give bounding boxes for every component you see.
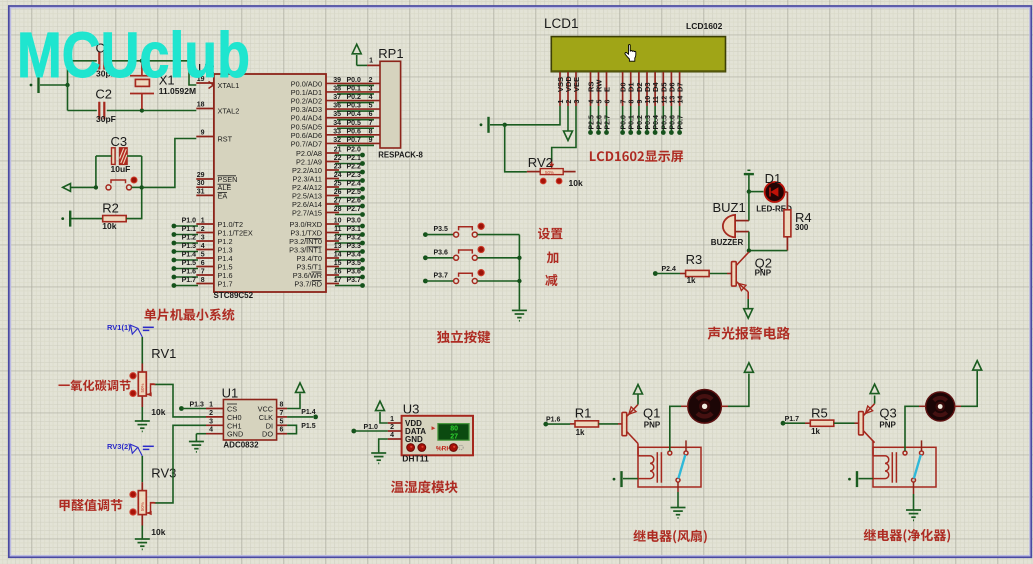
svg-text:15: 15 [334, 260, 342, 267]
ground bar terminal (RL2 coil) [848, 471, 857, 487]
R1 left lead [570, 423, 575, 425]
U3 pin 2 DATA stub [388, 430, 402, 432]
DHT11 indicator LEDs [407, 444, 415, 452]
svg-text:1: 1 [201, 218, 205, 225]
relay RL2 switch (cyan) [914, 455, 921, 479]
svg-text:3: 3 [369, 85, 373, 92]
wire P3.1 [335, 234, 363, 236]
svg-text:1k: 1k [687, 276, 696, 285]
capacitor C2 plates [99, 102, 104, 120]
svg-text:9: 9 [201, 130, 205, 137]
LCD1602 screen [551, 37, 725, 72]
wire VEE to RV2 wiper [552, 106, 576, 162]
wire P0.2 [337, 102, 374, 104]
wire LCD D5 [662, 106, 664, 131]
terminal P3.6 [360, 275, 365, 280]
red text 一氧化碳调节 [58, 380, 130, 392]
wire P2.4 [335, 188, 363, 190]
LCD pin 11 D4 [654, 72, 656, 106]
svg-text:RST: RST [218, 135, 233, 144]
svg-text:300: 300 [795, 223, 809, 232]
svg-text:P2.1: P2.1 [347, 155, 362, 162]
resistor R4 body [784, 210, 791, 237]
wire D1 to R4 [785, 191, 788, 193]
resistor R3 body [686, 270, 710, 276]
terminal P1.5 [172, 266, 177, 271]
svg-text:4: 4 [369, 94, 373, 101]
svg-text:STC89C52: STC89C52 [214, 291, 254, 300]
terminal P1.0 [172, 224, 177, 229]
ground (RL1) [671, 508, 686, 518]
WR overline [312, 271, 322, 273]
svg-text:GND: GND [227, 430, 243, 439]
pin 29 stub [196, 178, 214, 180]
svg-text:11: 11 [653, 96, 660, 104]
wire P2.4 to R3 [655, 273, 680, 275]
motor M2 (purifier) [926, 392, 955, 421]
pin 17 stub [326, 283, 339, 285]
junction osc left [65, 83, 69, 87]
svg-text:P1.7: P1.7 [785, 416, 800, 423]
svg-text:8: 8 [629, 100, 636, 104]
svg-text:%RH: %RH [436, 446, 451, 453]
pin 2 stub P1.1 [196, 232, 214, 234]
power +5V arrow (U1) [296, 383, 305, 393]
terminal P1.3 [172, 249, 177, 254]
svg-text:10: 10 [334, 218, 342, 225]
junction XTAL2 node [140, 108, 144, 112]
power +5V arrow (Q1) [634, 385, 643, 395]
terminal P1.0 [351, 429, 356, 434]
wire P3.0 [335, 225, 363, 227]
wire RP1 pin1 [357, 64, 367, 66]
red text 甲醛值调节 [59, 499, 122, 511]
svg-text:29: 29 [197, 172, 205, 179]
svg-text:P0.5: P0.5 [347, 120, 362, 127]
svg-text:U1: U1 [222, 386, 239, 401]
svg-text:7: 7 [621, 100, 628, 104]
wire GND down [379, 439, 388, 453]
terminal P3.4 [360, 258, 365, 263]
svg-text:18: 18 [197, 102, 205, 109]
svg-text:6: 6 [280, 427, 284, 434]
svg-text:30: 30 [197, 180, 205, 187]
wire button P3.7 to common [477, 280, 519, 282]
svg-text:50%: 50% [545, 170, 554, 175]
pin 38 P0.1 bus red [326, 91, 380, 93]
wire RV1 wiper to CH0 [155, 384, 207, 417]
svg-text:Q1: Q1 [643, 406, 660, 421]
INT1 overline [307, 246, 322, 248]
svg-text:8: 8 [201, 277, 205, 284]
wire buttons common vertical [518, 235, 520, 310]
terminal P1.6 [543, 422, 548, 427]
svg-text:DHT11: DHT11 [402, 454, 429, 464]
LCD pin 12 D5 [662, 72, 664, 106]
terminal P3.3 [360, 249, 365, 254]
svg-text:GND: GND [405, 435, 423, 444]
junction common P3.6 [517, 256, 521, 260]
wire C2 to XTAL2 node [107, 110, 142, 112]
potentiometer RV2 [527, 162, 576, 176]
power +5V arrow (RP1) [352, 44, 361, 54]
motor M1 right lead [721, 405, 728, 407]
pin 18 stub [196, 108, 214, 110]
wire node to D1 [749, 191, 764, 193]
svg-text:P0.7: P0.7 [678, 115, 685, 130]
junction reset right [140, 185, 144, 189]
svg-text:BUZZER: BUZZER [711, 238, 744, 247]
LCD pin 1 VSS [559, 72, 561, 106]
svg-text:P2.7/A15: P2.7/A15 [292, 209, 322, 218]
resistor pack RP1 body [380, 61, 401, 148]
svg-text:P1.6: P1.6 [182, 269, 197, 276]
wire probe to RV3 [141, 456, 143, 482]
terminal P2.7 [360, 212, 365, 217]
svg-text:P3.3: P3.3 [347, 243, 362, 250]
wire C3 right vertical [141, 156, 143, 187]
ground bar terminal (RL1 coil) [613, 471, 622, 487]
wire P0.1 [337, 93, 374, 95]
svg-text:7: 7 [201, 269, 205, 276]
terminal P0.1 [628, 130, 633, 135]
pin 10 stub [326, 223, 339, 225]
terminal P2.4 [360, 187, 365, 192]
svg-text:P2.6: P2.6 [597, 115, 604, 130]
terminal P2.4 [653, 271, 658, 276]
pin 14 stub [326, 257, 339, 259]
svg-text:14: 14 [334, 252, 342, 259]
svg-text:VEE: VEE [572, 77, 581, 92]
svg-text:LCD1: LCD1 [544, 16, 579, 31]
voltage probe RV1(1) [131, 325, 154, 337]
wire P2.1 [335, 163, 363, 165]
svg-text:21: 21 [334, 147, 342, 154]
terminal P2.5 [588, 130, 593, 135]
svg-text:ADC0832: ADC0832 [223, 441, 259, 450]
pin 28 stub [326, 212, 339, 214]
wire C1 to crystal node [107, 60, 142, 62]
wire probe to RV1 [141, 337, 143, 364]
svg-text:1k: 1k [811, 427, 820, 436]
svg-text:P3.1: P3.1 [347, 226, 362, 233]
wire VSS to ground node [505, 106, 560, 125]
junction LED node [747, 189, 751, 193]
wire node to XTAL1 pin [142, 61, 196, 85]
power +5V arrow (U3) [376, 401, 385, 411]
wire P2.6 [335, 205, 363, 207]
svg-text:3: 3 [209, 418, 213, 425]
wire C3 left [96, 155, 112, 157]
wire node to RV2 left [505, 125, 527, 172]
ground bar terminal (osc) [30, 77, 39, 93]
svg-text:2: 2 [201, 226, 205, 233]
pin 4 stub P1.3 [196, 249, 214, 251]
svg-text:2: 2 [369, 77, 373, 84]
svg-text:U3: U3 [403, 402, 420, 417]
wire P2.2 [335, 171, 363, 173]
U1 pin 4 GND stub [206, 433, 223, 435]
wire VCC to power [287, 394, 300, 409]
svg-text:6: 6 [369, 111, 373, 118]
resistor R1 body [575, 421, 599, 427]
svg-text:3: 3 [574, 100, 581, 104]
wire LCD D1 [630, 106, 632, 131]
red text 设置 [538, 228, 563, 240]
LCD pin 6 E [606, 72, 608, 106]
svg-text:26: 26 [334, 189, 342, 196]
terminal P0.5 [661, 130, 666, 135]
crystal X1 [130, 62, 154, 109]
wire R1 to Q1 base [599, 423, 619, 425]
wire P1.7 to R5 [783, 422, 805, 424]
terminal P2.0 [360, 153, 365, 158]
pin 34 P0.5 bus red [326, 125, 380, 127]
wire node to RST pin [142, 139, 197, 188]
svg-text:5: 5 [369, 103, 373, 110]
svg-text:12: 12 [661, 96, 668, 104]
wire RV3 to ground [141, 526, 143, 539]
terminal P2.2 [360, 170, 365, 175]
wire GND down [195, 434, 197, 441]
motor M1 (fan) [688, 390, 722, 424]
DHT11 gray marker [459, 445, 463, 449]
INT0 overline [305, 237, 322, 239]
svg-text:P2.4: P2.4 [662, 266, 677, 273]
button key3 marker dot [478, 270, 484, 276]
svg-text:2: 2 [209, 410, 213, 417]
svg-text:D1: D1 [765, 171, 782, 186]
terminal P3.6 [423, 255, 428, 260]
svg-text:P3.7: P3.7 [434, 273, 449, 280]
RV1 terminal marker dots [130, 373, 136, 379]
LCD pin 7 D0 [622, 72, 624, 106]
svg-text:RV1: RV1 [151, 346, 176, 361]
svg-text:MCUclub: MCUclub [17, 19, 250, 91]
pin 39 P0.0 bus red [326, 82, 380, 84]
terminal P3.0 [360, 224, 365, 229]
transistor Q1 (PNP) [622, 405, 638, 456]
svg-text:DO: DO [262, 430, 273, 439]
pin 5 stub P1.4 [196, 257, 214, 259]
svg-text:P1.3: P1.3 [182, 243, 197, 250]
svg-text:LCD1602: LCD1602 [686, 21, 723, 31]
U3 pin 4 GND stub [388, 438, 402, 440]
svg-text:33: 33 [333, 128, 341, 135]
RV3 terminal marker dots [130, 491, 136, 497]
wire button to node [132, 186, 142, 188]
svg-text:P2.4: P2.4 [347, 181, 362, 188]
LCD pin 8 D1 [630, 72, 632, 106]
wire gnd to R2 [71, 218, 103, 220]
wire P3.6 to button [425, 257, 453, 259]
svg-text:12: 12 [334, 235, 342, 242]
svg-text:9: 9 [637, 100, 644, 104]
svg-text:C3: C3 [111, 134, 128, 149]
svg-text:PNP: PNP [644, 421, 661, 430]
svg-text:80: 80 [450, 425, 458, 432]
svg-text:P3.7/RD: P3.7/RD [294, 280, 322, 289]
terminal P2.5 [360, 195, 365, 200]
svg-text:BUZ1: BUZ1 [713, 200, 746, 215]
wire to C2 left [68, 110, 97, 112]
svg-text:22: 22 [334, 155, 342, 162]
svg-text:P1.7: P1.7 [218, 280, 233, 289]
svg-text:P1.0: P1.0 [182, 218, 197, 225]
svg-text:P1.6: P1.6 [546, 417, 561, 424]
wire C3 right [127, 155, 142, 157]
svg-text:P0.3: P0.3 [347, 103, 362, 110]
svg-text:4: 4 [390, 432, 394, 439]
wire button P3.5 to common [477, 234, 519, 236]
wire CLK to P1.4 [287, 416, 313, 418]
svg-text:31: 31 [197, 188, 205, 195]
svg-text:P2.7: P2.7 [605, 115, 612, 130]
svg-text:10k: 10k [151, 527, 165, 537]
wire DI-DO tie P1.5 [287, 425, 296, 433]
svg-text:9: 9 [369, 137, 373, 144]
push button key1 [454, 227, 478, 237]
wire P1.1 [174, 234, 198, 236]
pin 7 stub P1.6 [196, 274, 214, 276]
terminal P0.2 [637, 130, 642, 135]
svg-text:P0.6: P0.6 [669, 115, 676, 130]
svg-text:RP1: RP1 [378, 46, 403, 61]
terminal P1.4 [313, 415, 318, 420]
wire P0.3 [337, 110, 374, 112]
wire relay common down [677, 492, 679, 507]
pin 11 stub [326, 232, 339, 234]
motor M1 left lead [681, 405, 688, 407]
U1 pin 6 DO stub [277, 433, 288, 435]
wire P2.0 [335, 154, 363, 156]
button key2 marker dot [478, 246, 484, 252]
svg-text:10uF: 10uF [111, 164, 131, 174]
wire P2.5 [335, 197, 363, 199]
XTAL1 clock chevron [209, 82, 214, 89]
terminal P3.7 [360, 283, 365, 288]
svg-text:P3.5: P3.5 [434, 226, 449, 233]
relay RL1 switch (cyan) [678, 455, 685, 479]
svg-text:5: 5 [201, 252, 205, 259]
wire R4 to collector node [749, 250, 788, 252]
wire motor to relay NO [905, 406, 919, 451]
wire RV1 to ground [141, 407, 143, 421]
svg-text:RV3(2): RV3(2) [107, 442, 131, 451]
wire P3.4 [335, 259, 363, 261]
wire arrow to button [71, 186, 96, 188]
pin 35 P0.4 bus red [326, 117, 380, 119]
svg-text:P3.6: P3.6 [434, 249, 449, 256]
ground (U3) [371, 453, 386, 463]
wire relay common down [913, 494, 915, 510]
svg-text:1k: 1k [576, 428, 585, 437]
svg-text:R2: R2 [102, 201, 119, 216]
LCD pin 4 RS [590, 72, 592, 106]
svg-text:4: 4 [201, 243, 205, 250]
svg-text:2: 2 [390, 424, 394, 431]
wire button P3.6 to common [477, 257, 519, 259]
DHT11 U3 body [402, 416, 473, 456]
svg-text:P0.6: P0.6 [347, 128, 362, 135]
svg-text:P3.7: P3.7 [347, 277, 362, 284]
pin 8 stub P1.7 [196, 283, 214, 285]
svg-text:D7: D7 [676, 82, 685, 92]
terminal P2.6 [596, 130, 601, 135]
terminal P2.6 [360, 204, 365, 209]
ground (RV1) [135, 421, 150, 431]
svg-text:Q3: Q3 [879, 406, 896, 421]
pin 30 stub [196, 186, 214, 188]
svg-text:P0.2: P0.2 [637, 115, 644, 130]
svg-text:4: 4 [589, 100, 596, 104]
terminal P3.5 [423, 232, 428, 237]
R3 left lead [680, 273, 686, 275]
svg-text:50%: 50% [140, 383, 145, 392]
wire LCD D2 [638, 106, 640, 131]
RV2 terminal marker dots [540, 178, 546, 184]
svg-text:P2.0: P2.0 [347, 147, 362, 154]
svg-text:10k: 10k [151, 407, 165, 417]
red text LCD1602显示屏 [590, 151, 683, 163]
wire LCD E [606, 106, 608, 131]
svg-text:1: 1 [390, 416, 394, 423]
svg-text:P0.4: P0.4 [653, 115, 660, 130]
pin 36 P0.3 bus red [326, 108, 380, 110]
EA overline [218, 192, 228, 194]
pin 13 stub [326, 249, 339, 251]
pin 15 stub [326, 266, 339, 268]
svg-text:32: 32 [333, 137, 341, 144]
svg-text:P0.3: P0.3 [645, 115, 652, 130]
wire R3 to Q2 base [709, 273, 727, 275]
pin 16 stub [326, 274, 339, 276]
terminal P2.7 [604, 130, 609, 135]
wire node to buzzer top [748, 192, 750, 221]
red text 独立按键 [437, 330, 490, 343]
capacitor C1 plates [99, 52, 104, 70]
svg-text:R3: R3 [686, 252, 703, 267]
Q3 base lead [855, 422, 860, 424]
wire LCD RW [598, 106, 600, 131]
wire P0.4 [337, 119, 374, 121]
LCD pin 9 D2 [638, 72, 640, 106]
wire buzzer to collector node [748, 232, 750, 251]
svg-text:P0.7/AD7: P0.7/AD7 [291, 139, 322, 148]
svg-text:P2.5: P2.5 [589, 115, 596, 130]
terminal P2.1 [360, 161, 365, 166]
PSEN overline [218, 175, 237, 177]
red text 继电器(净化器) [864, 529, 950, 543]
wire P1.0 [174, 225, 198, 227]
svg-text:P1.4: P1.4 [301, 409, 316, 416]
svg-text:P0.2: P0.2 [347, 94, 362, 101]
pin 37 P0.2 bus red [326, 100, 380, 102]
wire P3.7 [335, 285, 363, 287]
RD overline [312, 279, 322, 281]
push button key3 [454, 273, 478, 283]
reset net arrow (left) [63, 184, 71, 192]
svg-text:24: 24 [334, 172, 342, 179]
wire P3.3 [335, 251, 363, 253]
reset button marker dot [131, 177, 137, 183]
junction XTAL1 node [140, 59, 144, 63]
svg-text:14: 14 [678, 96, 685, 104]
svg-text:P2.6: P2.6 [347, 198, 362, 205]
Q1 base lead [618, 423, 622, 425]
terminal P0.4 [653, 130, 658, 135]
U1 pin 3 CH1 stub [206, 424, 223, 426]
